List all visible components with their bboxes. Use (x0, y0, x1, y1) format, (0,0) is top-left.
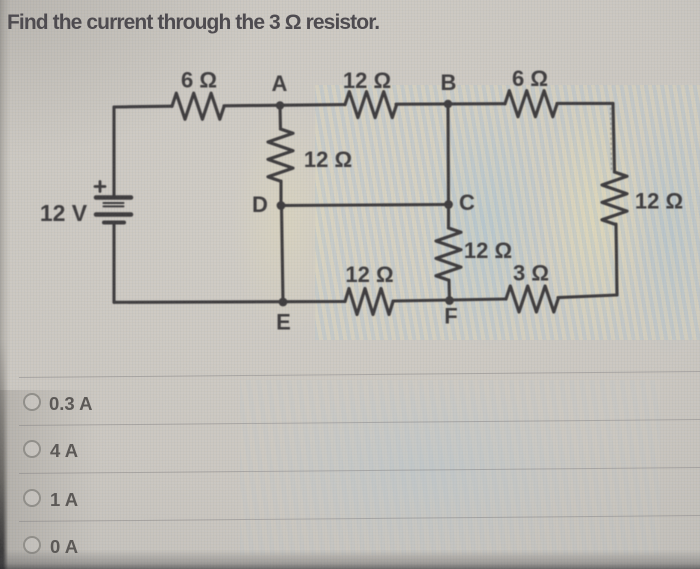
wire node B down to node C (446, 104, 450, 204)
photo edges (0, 0, 10, 569)
option text 0.3 A (49, 393, 93, 415)
option text 4 A (50, 440, 78, 462)
wire bottom right segment (558, 295, 617, 298)
moire stripe band over circuit (315, 85, 700, 340)
radio button option 3 (23, 489, 41, 507)
battery V1 plus sign (95, 182, 105, 192)
battery V1 plate thin 1 (104, 202, 124, 204)
battery V1 plate long bottom (96, 212, 131, 217)
wire node D to node C (281, 205, 449, 206)
colour tint patches (230, 100, 340, 340)
wire R7 to node D (279, 181, 282, 206)
wire node A down to R7 (278, 106, 282, 130)
battery V1 plate short bottom (104, 221, 124, 225)
resistor R5 3ohm (bottom right) (506, 286, 558, 312)
resistor R4 12ohm (right side) (602, 172, 627, 224)
resistor R1 6ohm (top left) (172, 93, 224, 119)
resistor R3 6ohm (top right) (505, 91, 557, 117)
battery V1 plate thin 2 (104, 205, 124, 207)
wire node F to R5 (393, 299, 506, 301)
title (7, 11, 379, 35)
node C junction dot (444, 200, 453, 209)
node F junction dot (445, 296, 454, 305)
radio button option 2 (23, 440, 41, 458)
wire right side upper (613, 103, 615, 172)
wire R2 to node B to R3 (396, 102, 505, 106)
wire bottom-left corner to node E to R6 (114, 300, 345, 304)
wire node C down to R8 (447, 205, 450, 229)
node E junction dot (279, 298, 288, 307)
wire R1 to node A to R2 (224, 105, 345, 106)
top-left corner shade (0, 0, 260, 160)
resistor R2 12ohm (top middle) (345, 92, 397, 118)
wire right side lower (616, 224, 617, 295)
option text 1 A (50, 489, 78, 511)
wire node D down to node E (282, 206, 284, 303)
wire left side upper (112, 107, 115, 195)
bottom-left shading (0, 390, 120, 569)
wire R8 to node F (447, 280, 451, 301)
separator line 4 (19, 515, 700, 522)
option text 0 A (50, 536, 78, 558)
resistor R6 12ohm (bottom left) (345, 289, 393, 315)
radio button option 4 (23, 536, 41, 554)
ghost artifact right wire (611, 108, 612, 170)
battery V1 plate long top (96, 195, 131, 200)
resistor R7 12ohm (A to D) (268, 129, 293, 181)
separator line 3 (19, 467, 700, 474)
resistor R8 12ohm (C to F) (436, 228, 461, 280)
separator line 2 (19, 419, 700, 426)
wire R3 to top-right corner (557, 102, 613, 105)
separator line 1 (19, 371, 700, 378)
wire top-left corner to resistor R1 (114, 105, 172, 109)
node D junction dot (277, 201, 286, 210)
node A junction dot (276, 101, 284, 109)
node B junction dot (444, 100, 452, 108)
radio button option 1 (23, 393, 41, 411)
wire left side lower (112, 225, 115, 302)
